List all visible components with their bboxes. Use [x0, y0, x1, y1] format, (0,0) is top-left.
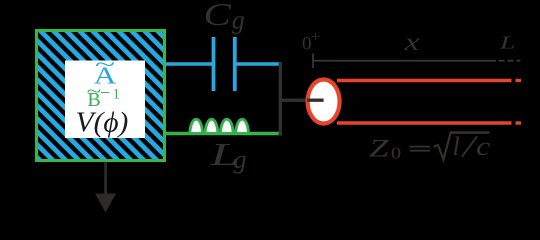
svg-text:l: l — [453, 132, 460, 161]
svg-text:g: g — [234, 145, 247, 174]
svg-text:c: c — [476, 133, 490, 161]
svg-text:−: − — [100, 83, 110, 103]
svg-text:L: L — [499, 33, 516, 53]
svg-text:0: 0 — [391, 144, 401, 163]
svg-text:C: C — [204, 0, 232, 32]
svg-text:V(ϕ): V(ϕ) — [76, 107, 129, 138]
svg-text:Z: Z — [369, 134, 390, 162]
svg-text:~: ~ — [95, 52, 115, 76]
svg-text:x: x — [403, 29, 419, 56]
svg-text:g: g — [232, 6, 245, 35]
svg-text:1: 1 — [113, 87, 121, 103]
svg-text:+: + — [311, 29, 320, 46]
